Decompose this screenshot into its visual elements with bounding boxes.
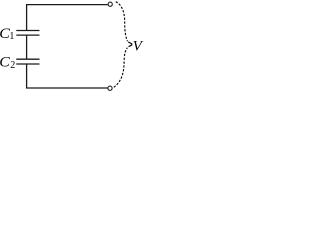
svg-text:V: V (133, 38, 144, 55)
svg-text:C: C (0, 55, 10, 71)
svg-text:1: 1 (9, 31, 14, 42)
svg-text:2: 2 (10, 60, 15, 71)
